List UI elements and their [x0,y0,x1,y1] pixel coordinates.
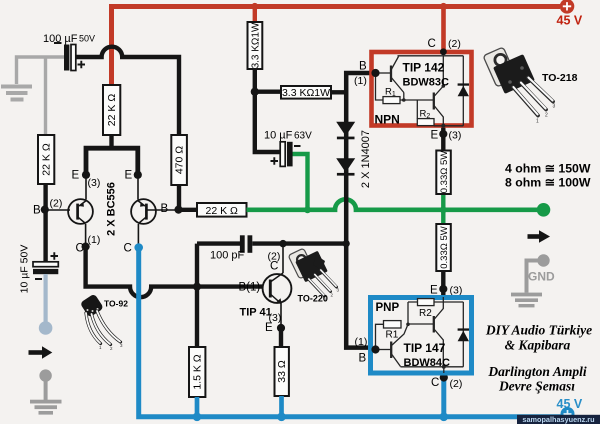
diode D2 1N4007 [336,158,355,172]
svg-text:22 K Ω: 22 K Ω [206,205,239,217]
node: diode column / TIP41 collector junction [343,240,350,247]
internal diode line [462,56,464,126]
resistor 33R [275,347,289,396]
svg-text:470 Ω: 470 Ω [174,146,186,174]
output arrow right [528,234,540,239]
svg-text:E: E [125,170,133,182]
watermark bar [517,415,600,424]
internal node to T2 base [400,93,434,101]
wire: +45V red rail top [112,7,561,88]
svg-text:B(1): B(1) [239,282,261,294]
svg-text:10 µF: 10 µF [264,130,293,142]
internal bottom rail [401,367,464,373]
node: red rail junction [251,3,258,10]
node E TIP41 [277,324,285,332]
wire: green from 10uF63V cap [293,154,308,208]
svg-text:(1): (1) [88,234,101,246]
node B PNP [371,345,379,353]
resistor 470R [171,135,187,185]
wire: 100pF net [197,241,344,245]
svg-text:C: C [428,38,436,50]
transistor Q2 BC556 (right) [131,176,178,247]
svg-text:100 pF: 100 pF [210,250,245,262]
svg-text:B: B [33,205,41,217]
capacitor C 100uF 50V [43,33,95,71]
svg-text:33 Ω: 33 Ω [276,360,288,383]
svg-text:TIP 41: TIP 41 [240,307,272,319]
wire: 22K to emitter bracket [109,135,113,146]
node C(2) PNP [440,373,448,381]
node: rail junction PNP C [440,413,449,422]
svg-text:3.3 KΩ1W: 3.3 KΩ1W [282,87,330,99]
node E(3) NPN [439,130,447,138]
svg-text:C: C [76,243,84,255]
wire: emitter bracket [86,148,138,175]
svg-text:8 ohm ≅ 100W: 8 ohm ≅ 100W [505,176,591,190]
internal R1 resistor [383,97,400,104]
node: red rail junction 2 [440,3,447,10]
wire: PNP C blue stub [441,373,446,415]
internal diode PNP [458,331,469,341]
svg-text:TIP 147: TIP 147 [404,341,446,355]
svg-text:22 K Ω: 22 K Ω [41,143,53,176]
internal T2 [433,93,435,110]
wire: 100pF down to 1.5K [195,244,199,347]
svg-text:C: C [270,261,278,273]
svg-text:TO-218: TO-218 [542,72,578,84]
wire: green between 0.33R resistors [441,194,445,224]
svg-text:3.3 KΩ1W: 3.3 KΩ1W [250,22,261,68]
wire: B node down to 10uF cap [43,210,47,262]
svg-text:2: 2 [545,113,548,119]
wire: gray ground net top-left [17,57,65,84]
svg-text:E: E [430,285,438,297]
svg-text:PNP: PNP [376,302,400,314]
wire: PNP E stub [441,271,445,297]
internal node to T2 base [408,323,434,325]
power terminal: blue circle bottom right [561,407,575,421]
input arrow [29,350,43,355]
svg-text:50V: 50V [79,34,95,44]
svg-text:2 X 1N4007: 2 X 1N4007 [360,130,372,188]
svg-text:DIY Audio Türkiye: DIY Audio Türkiye [485,323,592,338]
wire: 3.3K to diode column [331,90,346,94]
wire: 3.3K net vertical + to 10uF cap [255,69,281,92]
power terminal: +45V circle top right [560,0,575,14]
resistor 22K (middle, from +rail) [103,85,120,135]
package TO-92 [80,293,123,351]
svg-text:Devre Şeması: Devre Şeması [498,379,575,394]
terminal: slate dot [39,321,53,335]
wire: NPN E to 0.33R [441,128,445,151]
package TO-220 [288,248,339,302]
node: 470R/22K/base junction [174,206,182,214]
svg-text:(3): (3) [449,130,462,142]
diode D1 1N4007 [336,122,355,136]
svg-text:TO-92: TO-92 [104,299,128,309]
resistor 3.3K 1W (vertical) [248,22,263,69]
svg-text:samopalhasyuenz.ru: samopalhasyuenz.ru [522,415,594,424]
node C(2) NPN dot [440,48,447,55]
wire: E to 33R [279,328,283,347]
transistor Q3 TIP41 [263,246,292,327]
svg-text:2 X BC556: 2 X BC556 [106,182,118,236]
resistor 22K (horizontal) [197,203,247,217]
transistor Q1 BC556 (left) [68,176,93,247]
wire: blue negative rail [139,247,566,417]
svg-text:B: B [359,61,367,73]
node C(1) [82,243,90,251]
wire: red stub to 3.3K resistor [253,7,257,23]
svg-text:(3): (3) [450,285,463,297]
svg-text:(1): (1) [354,75,367,87]
svg-text:& Kapibara: & Kapibara [505,338,571,353]
internal T1 [376,349,391,351]
internal bottom rail [434,126,463,128]
node B NPN [371,69,379,77]
internal diode [458,86,469,96]
wire: 470R to node [177,185,181,210]
svg-text:TIP 142: TIP 142 [403,61,445,75]
svg-text:BDW83C: BDW83C [403,77,450,89]
svg-text:(2): (2) [50,198,63,210]
resistor 1.5K [189,347,205,397]
internal T2 [433,316,435,333]
internal R1 link [376,324,384,349]
svg-text:1: 1 [536,119,539,125]
svg-text:E: E [72,170,80,182]
wire: base lead BC556 left [45,209,70,211]
node B(2) [41,206,49,214]
node: 100pF/TIP41 C junction [279,240,286,247]
wire: diode column B-net [346,73,375,348]
wire: blue stub below 1.5K [195,397,200,415]
package TO-218 [483,47,555,125]
node: base line / 1.5K junction [193,283,201,291]
node: rail junction 33R [277,413,286,422]
node: blue C dot BC556 right [134,243,143,252]
svg-text:Darlington Ampli: Darlington Ampli [487,364,586,379]
wire: blue stub below 33R [279,396,284,415]
svg-text:E: E [265,322,273,334]
svg-text:GND: GND [528,270,555,284]
svg-text:4 ohm ≅ 150W: 4 ohm ≅ 150W [505,162,591,176]
capacitor 10uF 63V [264,130,312,167]
wire: red drop to NPN collector [441,7,446,51]
resistor 0.33R 5W (lower) [436,224,451,271]
svg-text:E: E [431,130,439,142]
svg-text:C: C [431,377,439,389]
svg-text:B: B [161,203,169,215]
internal R2 vertical [416,100,418,119]
wire: node to 22K resistor [179,208,198,212]
node: rail junction 1.5K [193,413,202,422]
internal T1 [376,72,391,74]
internal R2 resistor PNP [418,299,435,306]
internal R1 resistor PNP [384,321,402,328]
box U1 TIP142 [372,52,472,126]
svg-text:22 K Ω: 22 K Ω [106,94,118,127]
ground: top-left [1,85,32,102]
svg-text:(3): (3) [88,177,101,189]
svg-text:B: B [359,353,367,365]
ground: GND right gray [511,254,550,307]
ground: bottom-left gray [30,369,62,414]
resistor 3.3K 1W (horizontal) [281,86,331,99]
node: 3.3K junction [251,88,259,96]
svg-text:1.5 K Ω: 1.5 K Ω [192,354,204,389]
wire: green output net [247,199,544,210]
wire: 22K left to B node [43,184,47,210]
wire: C(1) to TIP41 base with hop over blue [86,247,263,298]
svg-text:TO-220: TO-220 [298,294,328,304]
resistor 0.33R 5W (upper) [436,151,451,195]
svg-text:(2): (2) [448,38,461,50]
svg-text:63V: 63V [294,131,312,142]
wire: slate lead below cap [43,274,47,322]
svg-text:45 V: 45 V [557,14,583,28]
svg-text:(2): (2) [450,378,463,390]
node E right BC556 [134,171,142,179]
internal R2 drop [407,302,409,324]
capacitor 100pF [240,235,245,253]
svg-text:100 µF: 100 µF [43,33,78,45]
svg-text:10 µF 50V: 10 µF 50V [19,245,31,294]
node: green junction at cap drop [304,206,311,213]
svg-text:0.33Ω 5W: 0.33Ω 5W [439,226,450,269]
node: green junction at 0.33R column [440,206,447,213]
node E left BC556 [82,171,90,179]
internal top rail [408,297,463,302]
terminal: green output dot [537,203,551,217]
wire: gray drop to 22K resistor [44,57,47,135]
svg-text:NPN: NPN [375,113,400,127]
internal B to R1 [376,73,384,100]
resistor 22K (far left) [38,135,54,184]
svg-text:C: C [124,243,132,255]
svg-text:R2: R2 [419,308,432,319]
wire: cap to 470R corner with hop over red [76,47,179,135]
internal top rail [398,55,464,57]
internal diode line [462,302,464,367]
svg-text:R1: R1 [386,330,399,341]
svg-text:0.33Ω 5W: 0.33Ω 5W [439,151,450,194]
internal R2 resistor [417,119,434,126]
svg-text:3: 3 [553,104,556,110]
box U2 TIP147 [371,298,472,374]
node E(3) PNP [439,285,447,293]
svg-text:BDW84C: BDW84C [404,357,451,369]
capacitor 10uF 50V [19,245,59,294]
svg-text:(1): (1) [355,336,368,348]
